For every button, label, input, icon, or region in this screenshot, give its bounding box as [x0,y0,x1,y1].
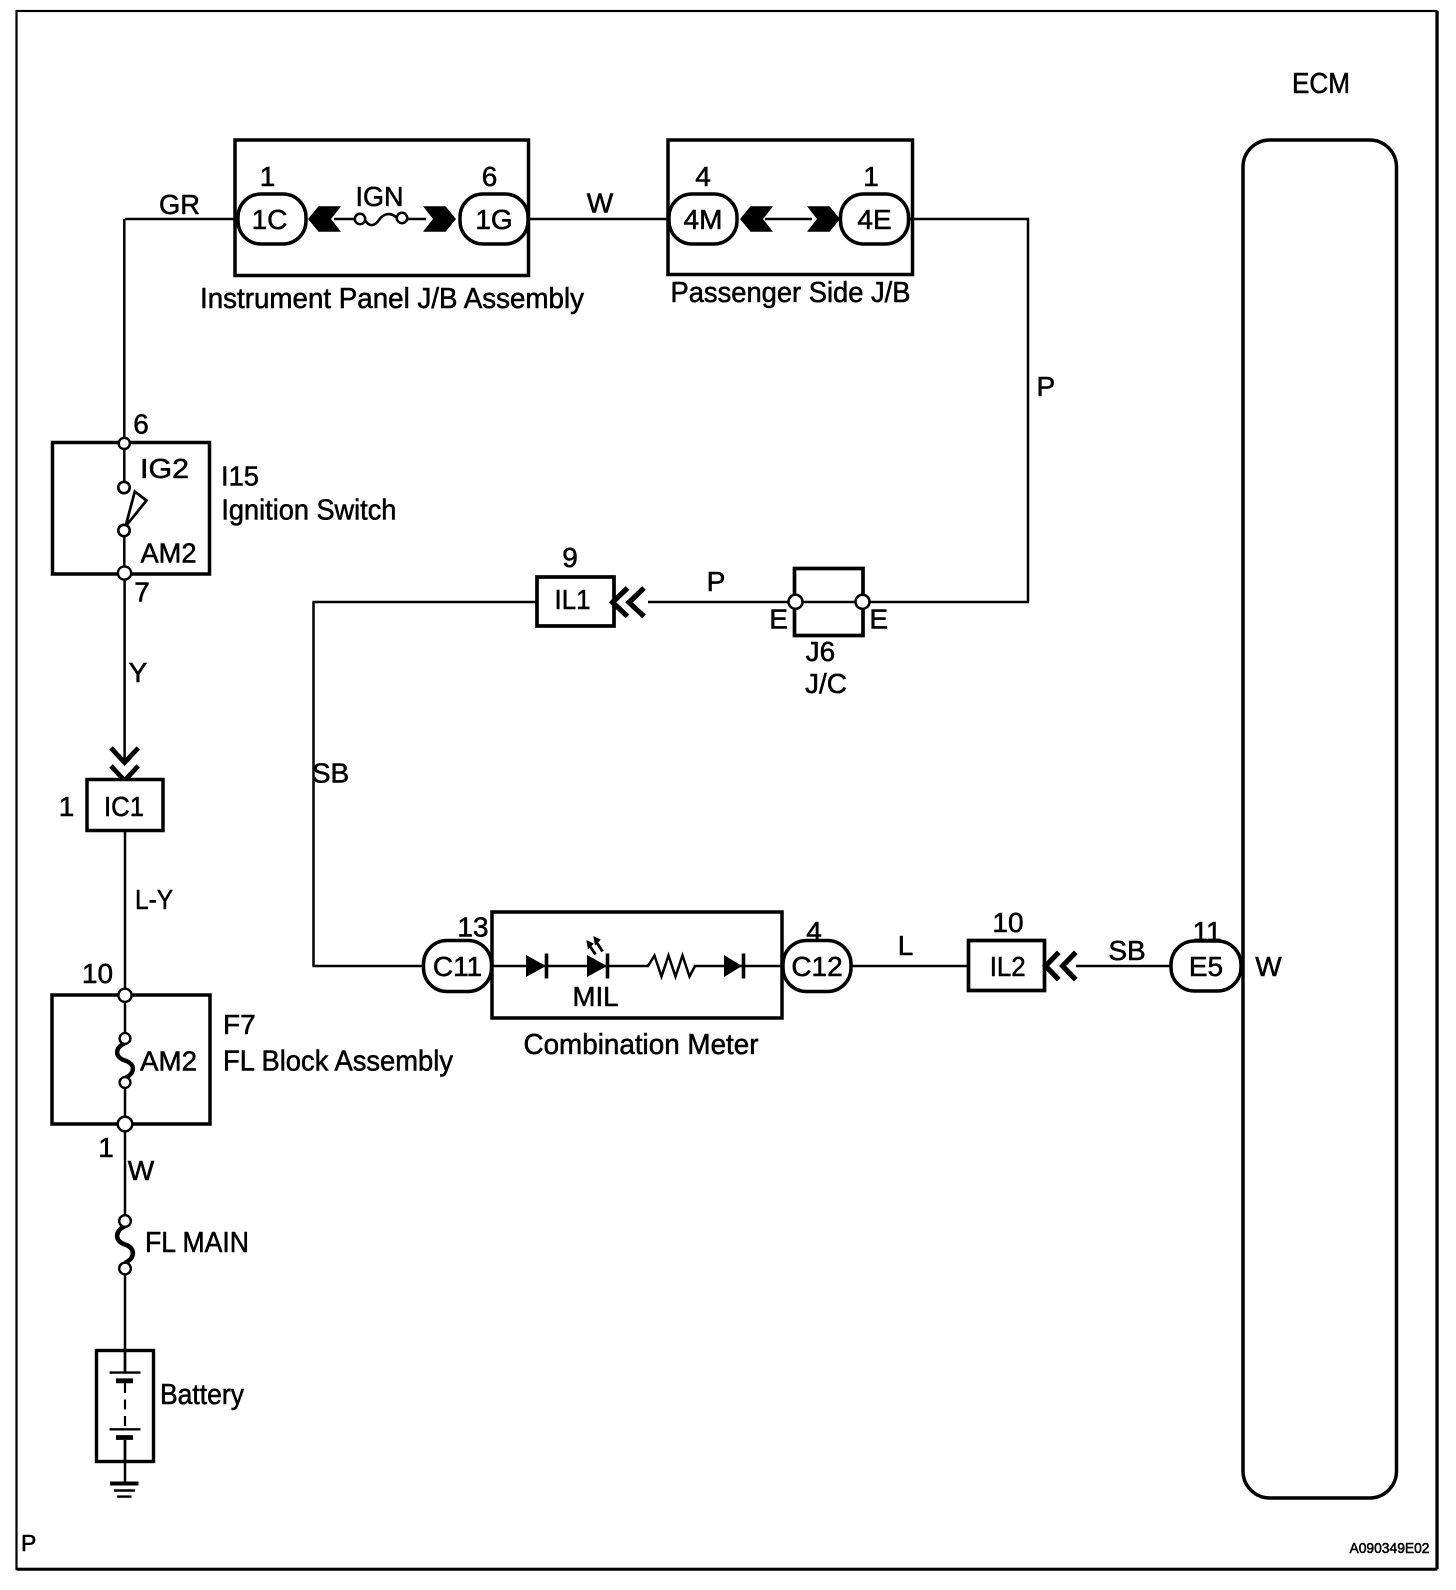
svg-text:A090349E02: A090349E02 [1350,1540,1430,1557]
arrow into 4E [807,206,840,231]
svg-text:W: W [1255,951,1282,982]
fuse AM2 [117,1033,133,1088]
wire J6 to IL1 chevrons [648,601,795,604]
svg-text:Ignition Switch: Ignition Switch [221,495,396,527]
connector 4M [669,194,737,244]
svg-text:IL1: IL1 [555,584,591,615]
svg-text:P: P [707,566,726,597]
fuse IGN [334,213,426,225]
svg-text:L: L [898,930,914,961]
wire inside J6 [795,601,864,604]
wire L-Y from IC1 to FL block [124,830,127,990]
svg-text:1: 1 [863,161,879,192]
switch contact upper [118,482,129,493]
svg-text:E: E [869,604,888,635]
pin 6 circle [119,438,130,449]
svg-text:4M: 4M [684,204,723,235]
svg-text:E5: E5 [1189,951,1223,982]
wire ignition switch upper contact [123,444,126,483]
svg-text:SB: SB [1108,935,1145,966]
svg-text:IC1: IC1 [104,791,144,822]
connector 1C [238,194,306,244]
svg-text:J/C: J/C [805,668,847,699]
arrow into 1C [308,206,341,231]
svg-text:F7: F7 [223,1009,256,1040]
FL Block Assembly box F7 [52,995,210,1124]
pin 10 circle [118,989,131,1002]
pin 7 circle [118,566,131,579]
LED MIL [586,936,607,979]
Combination Meter box [492,912,782,1018]
svg-text:C12: C12 [791,951,842,982]
svg-text:P: P [1037,371,1056,402]
svg-text:W: W [587,188,614,219]
svg-text:E: E [769,604,788,635]
wire W to FL MAIN [124,1128,127,1217]
wire GR horizontal [125,218,240,221]
wire FL block to AM2 fuse [124,998,127,1035]
wire SB from E5 to IL2 chevrons [1076,965,1172,968]
diode 2 [724,955,742,977]
svg-text:FL MAIN: FL MAIN [145,1227,249,1259]
svg-text:1: 1 [260,161,276,192]
wire L from C12 to IL2 [850,965,970,968]
wire P vertical [1027,218,1030,602]
ground [110,1482,139,1486]
battery [97,1350,154,1462]
diode 1 [526,955,546,977]
svg-text:P: P [21,1530,36,1556]
connector IL1 [537,577,614,626]
svg-text:1: 1 [59,791,75,822]
svg-text:Combination Meter: Combination Meter [524,1029,759,1061]
Passenger Side J/B box [668,140,913,275]
svg-text:Instrument Panel J/B Assembly: Instrument Panel J/B Assembly [200,283,585,315]
wire SB from IL1 [313,601,538,604]
wire left vertical to ignition switch [123,219,126,440]
svg-text:IGN: IGN [356,181,404,212]
svg-text:Battery: Battery [160,1379,245,1411]
svg-text:FL Block Assembly: FL Block Assembly [223,1046,454,1078]
Ignition Switch box I15 [53,443,210,575]
J6 left terminal circle [789,595,803,609]
svg-text:1: 1 [98,1132,114,1163]
svg-text:I15: I15 [221,461,259,492]
connector E5 [1171,941,1241,991]
pin 1 circle [118,1117,133,1132]
svg-text:GR: GR [159,189,200,220]
wire P horizontal to J6 [863,601,1029,604]
svg-text:4: 4 [695,161,711,192]
svg-text:Y: Y [129,657,148,688]
svg-text:6: 6 [133,409,149,440]
arrow into 1G [423,206,456,231]
svg-text:7: 7 [134,577,150,608]
svg-text:AM2: AM2 [140,1046,197,1077]
connector C12 [783,941,851,992]
svg-text:ECM: ECM [1292,68,1350,100]
svg-text:1G: 1G [475,204,512,235]
svg-text:13: 13 [457,912,488,943]
svg-text:SB: SB [312,758,349,789]
wire ignition switch lower contact [123,533,126,570]
svg-text:10: 10 [992,907,1023,938]
switch contact lower [118,525,129,536]
wire AM2 fuse to FL block pin 1 [124,1086,127,1120]
wire SB to C11 [313,965,426,968]
svg-text:L-Y: L-Y [135,884,173,915]
wire battery to ground [124,1440,127,1484]
connector IL2 [969,941,1045,991]
svg-text:11: 11 [1192,916,1221,947]
junction J6 box [795,569,864,636]
svg-text:1C: 1C [252,204,288,235]
svg-text:4E: 4E [857,204,891,235]
ECM connector shell [1243,140,1397,1498]
svg-text:J6: J6 [806,636,836,667]
svg-text:AM2: AM2 [141,538,197,569]
wire between arrows [765,218,812,221]
svg-text:IG2: IG2 [140,453,189,484]
double arrow into IC1 [111,748,138,781]
Instrument Panel J/B box [235,140,529,276]
svg-text:MIL: MIL [573,981,619,1012]
wire SB vertical [312,602,315,966]
wire Y pin7 down to arrows [123,576,126,761]
switch blade [126,492,147,527]
svg-text:4: 4 [806,916,822,947]
double chevron into IL2 [1046,952,1076,979]
double chevron into IL1 [613,588,645,616]
wire inside combination meter [490,965,785,968]
connector 1G [460,194,528,244]
wire FL MAIN to battery [124,1272,127,1371]
fuse FL MAIN [117,1215,133,1274]
connector 4E [841,194,909,244]
arrow into 4M [740,206,773,231]
svg-text:C11: C11 [433,951,482,982]
resistor [648,956,695,977]
connector C11 [424,941,492,992]
svg-text:W: W [128,1155,155,1186]
svg-text:10: 10 [82,958,113,989]
wire W between J/B boxes [527,218,670,221]
wire P from 4E to corner [908,218,1028,221]
connector IC1 [87,780,163,831]
J6 right terminal circle [856,595,870,609]
svg-text:IL2: IL2 [990,951,1026,982]
svg-text:Passenger Side J/B: Passenger Side J/B [671,277,911,309]
svg-text:6: 6 [482,161,498,192]
svg-text:9: 9 [562,542,578,573]
